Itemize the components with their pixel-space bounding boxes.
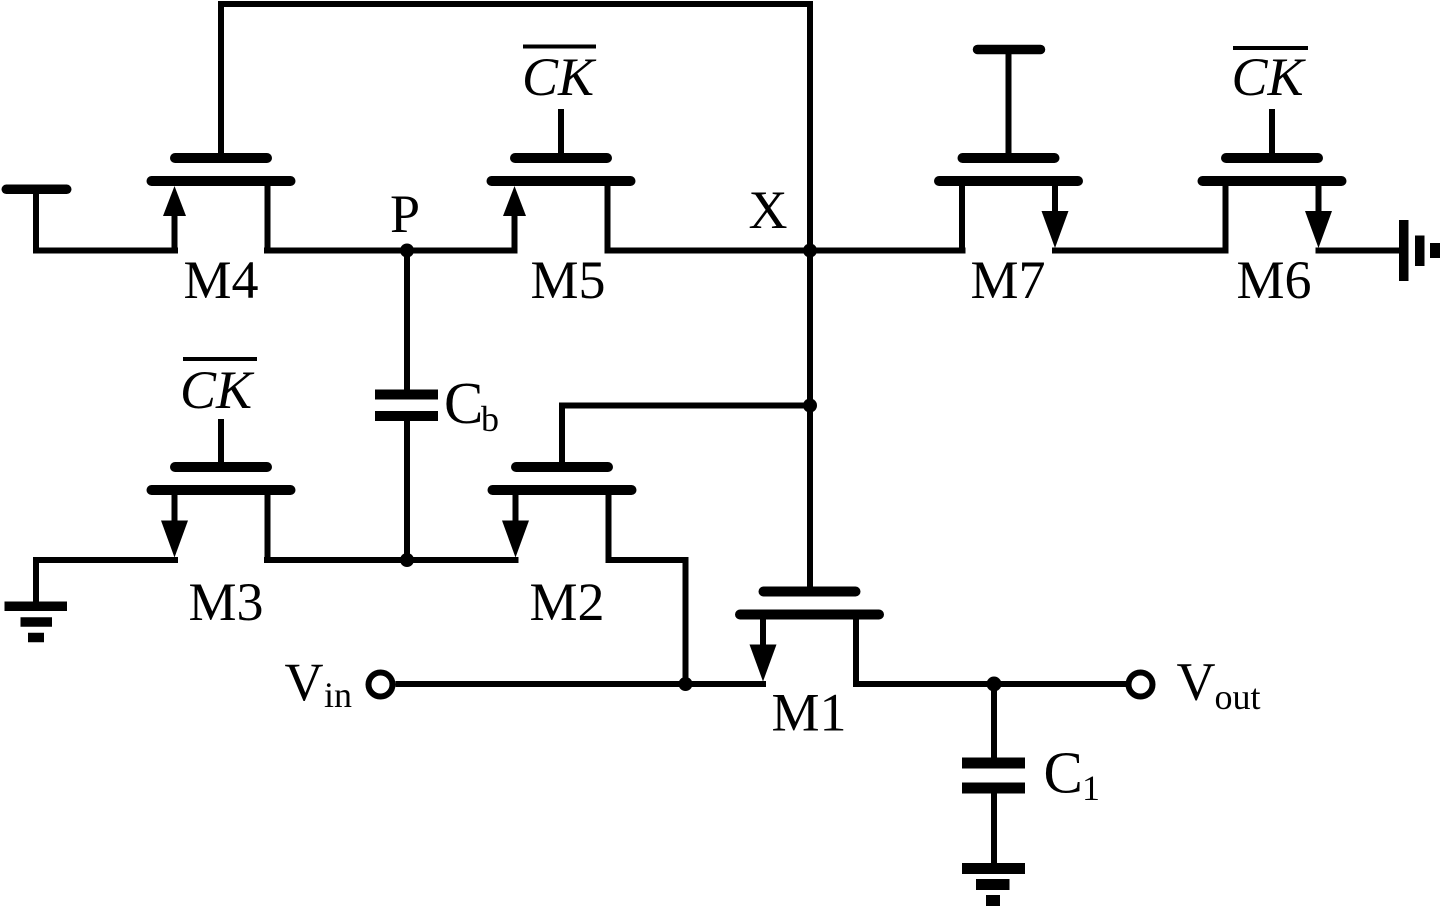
- svg-text:C: C: [1044, 740, 1083, 806]
- transistor M3: [152, 467, 291, 563]
- terminal Vin: [369, 673, 393, 697]
- transistor M1: [740, 592, 879, 688]
- svg-text:M6: M6: [1236, 250, 1311, 310]
- transistor M2: [493, 467, 632, 563]
- wire: node P down to Cb: [404, 247, 410, 390]
- transistor M4: [152, 158, 291, 254]
- svg-text:C: C: [444, 370, 483, 436]
- svg-text:M3: M3: [188, 572, 263, 632]
- node X junction dot: [803, 244, 817, 258]
- wire: M5 gate stub: [558, 109, 564, 163]
- wire: M7 drain to M6 source: [1052, 248, 1229, 254]
- svg-text:M4: M4: [183, 250, 258, 310]
- svg-text:CK: CK: [522, 47, 597, 107]
- wire: left ground drop: [33, 557, 39, 606]
- svg-text:V: V: [285, 652, 324, 712]
- label Vout: [1177, 652, 1261, 718]
- wire: M2 drain branch down to Vin rail: [683, 557, 689, 684]
- wire: M3 drain to M2 source through Cb node: [264, 557, 519, 563]
- label C1: [1044, 740, 1101, 809]
- wire: M6 gate stub: [1269, 109, 1275, 163]
- junction dot M2/M1 gate on X column: [803, 399, 817, 413]
- terminal Vout: [1129, 673, 1153, 697]
- capacitor C1: [962, 763, 1025, 788]
- wire: VDD terminal to M4 source: [33, 248, 178, 254]
- wire: Vin to M1 source: [396, 681, 767, 687]
- wire: M5 drain to M7 source through node X: [605, 248, 966, 254]
- power terminal bar (M7 gate): [978, 45, 1041, 55]
- wire: M2 drain to Vin branch corner: [606, 557, 686, 563]
- label CK-bar (M5 gate): [522, 47, 597, 108]
- svg-text:M5: M5: [530, 250, 605, 310]
- power terminal bar (top-left): [6, 185, 67, 195]
- svg-text:P: P: [390, 184, 420, 244]
- label Vin: [285, 652, 353, 715]
- svg-text:CK: CK: [180, 360, 255, 420]
- svg-text:M1: M1: [771, 683, 846, 743]
- svg-text:M7: M7: [970, 250, 1045, 310]
- transistor M6: [1203, 158, 1342, 254]
- ground (below C1): [962, 869, 1025, 901]
- wire: Vout rail down to C1: [991, 681, 997, 758]
- svg-text:b: b: [481, 399, 499, 439]
- capacitor Cb: [375, 395, 438, 417]
- junction dot Vin / M2 branch: [679, 677, 693, 691]
- transistor M5: [492, 158, 631, 254]
- ground (below M3): [5, 606, 68, 637]
- svg-text:1: 1: [1082, 768, 1100, 808]
- wire: M3 gate stub: [218, 419, 224, 472]
- wire: M4 drain to M5 source through node P: [264, 248, 518, 254]
- junction dot Cb / bottom rail: [400, 553, 414, 567]
- wire: M7 gate stem: [1006, 50, 1012, 164]
- wire: node X vertical column (X node down to M1 gate): [807, 1, 813, 592]
- wire: C1 to ground: [991, 793, 997, 864]
- wire: M1 drain to Vout: [853, 681, 1126, 687]
- svg-text:out: out: [1215, 677, 1261, 717]
- wire: left ground rail to M3 source: [33, 557, 178, 563]
- svg-text:X: X: [749, 180, 788, 240]
- junction dot C1 tap: [987, 677, 1002, 692]
- wire: Cb to bottom rail: [404, 421, 410, 564]
- svg-text:M2: M2: [529, 572, 604, 632]
- wire: left power terminal stem: [33, 189, 39, 254]
- wire: top horizontal from M4 gate to node X column: [218, 1, 813, 7]
- ground (right, rotated): [1404, 220, 1435, 281]
- wire: M4 gate stem: [218, 1, 224, 163]
- transistor M7: [939, 158, 1078, 254]
- wire: M6 drain to right-side ground: [1316, 248, 1400, 254]
- label Cb: [444, 370, 499, 439]
- label CK-bar (M3 gate): [180, 359, 257, 420]
- wire: M2 gate up and over to node X column: [562, 406, 807, 473]
- node P junction dot: [400, 244, 414, 258]
- svg-text:CK: CK: [1231, 47, 1306, 107]
- svg-text:V: V: [1177, 652, 1216, 712]
- label CK-bar (M6 gate): [1231, 47, 1308, 107]
- svg-text:in: in: [324, 675, 352, 715]
